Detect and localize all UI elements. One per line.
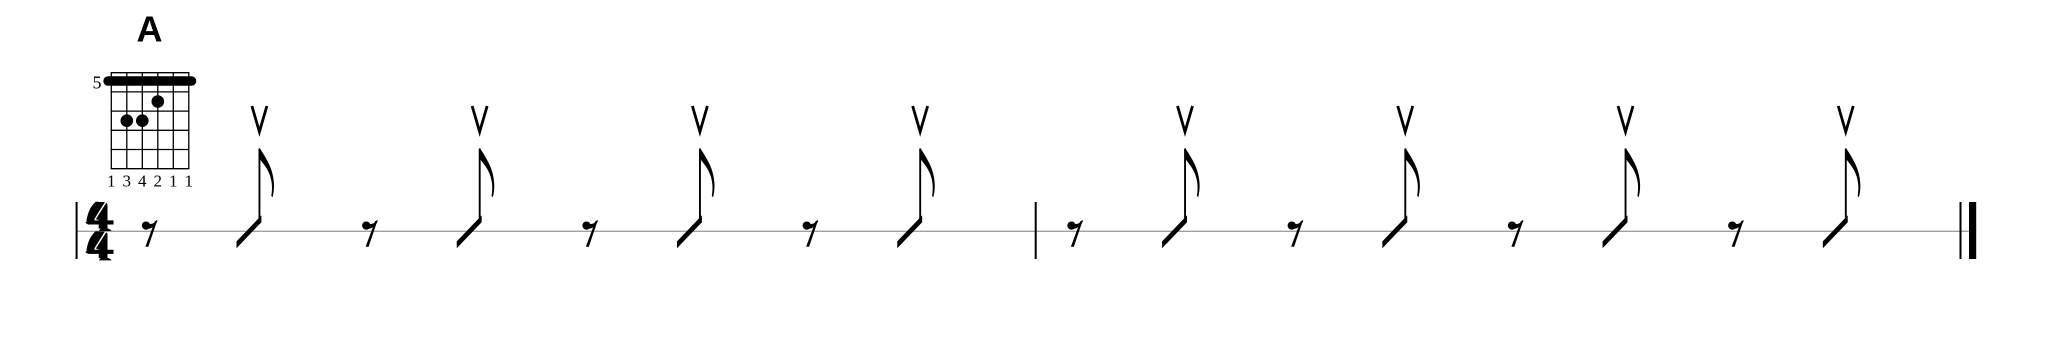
- upstroke V 6: [1398, 106, 1413, 132]
- barline middle: [1035, 202, 1037, 259]
- eighth note 5: [1162, 148, 1200, 248]
- eighth note 3: [677, 148, 715, 248]
- svg-text:A: A: [137, 8, 163, 49]
- eighth rest 8: [1728, 220, 1744, 247]
- eighth rest 2: [362, 220, 378, 247]
- upstroke V 2: [472, 106, 487, 132]
- staff line: [76, 230, 1976, 232]
- upstroke V 8: [1838, 106, 1853, 132]
- finger dot A string: [121, 114, 134, 127]
- barline left: [76, 202, 78, 259]
- finger dot G string: [152, 95, 165, 108]
- finger dot D string: [136, 114, 149, 127]
- fretboard grid: [111, 73, 190, 169]
- upstroke V 1: [252, 106, 267, 132]
- barre fret 5: [103, 76, 196, 86]
- time signature 4/4: [85, 202, 113, 261]
- fret number 5: [93, 73, 102, 93]
- final barline thick: [1969, 202, 1976, 259]
- eighth rest 3: [582, 220, 598, 247]
- svg-text:2: 2: [154, 172, 163, 191]
- svg-text:4: 4: [138, 172, 147, 191]
- final barline thin: [1960, 202, 1962, 259]
- eighth note 4: [897, 148, 935, 248]
- eighth rest 6: [1288, 220, 1304, 247]
- svg-text:1: 1: [185, 172, 194, 191]
- eighth rest 4: [803, 220, 819, 247]
- eighth note 8: [1823, 148, 1861, 248]
- eighth note 1: [237, 148, 275, 248]
- eighth note 2: [457, 148, 495, 248]
- svg-text:1: 1: [107, 172, 116, 191]
- chord label A: [137, 8, 163, 49]
- svg-text:3: 3: [123, 172, 132, 191]
- upstroke V 3: [692, 106, 707, 132]
- eighth rest 5: [1067, 220, 1083, 247]
- eighth rest 1: [142, 220, 158, 247]
- upstroke V 5: [1178, 106, 1193, 132]
- svg-text:5: 5: [93, 73, 102, 93]
- fingering numbers 1 3 4 2 1 1: [107, 172, 193, 191]
- svg-text:1: 1: [169, 172, 178, 191]
- eighth note 7: [1603, 148, 1641, 248]
- upstroke V 7: [1618, 106, 1633, 132]
- eighth rest 7: [1508, 220, 1524, 247]
- upstroke V 4: [913, 106, 928, 132]
- eighth note 6: [1382, 148, 1420, 248]
